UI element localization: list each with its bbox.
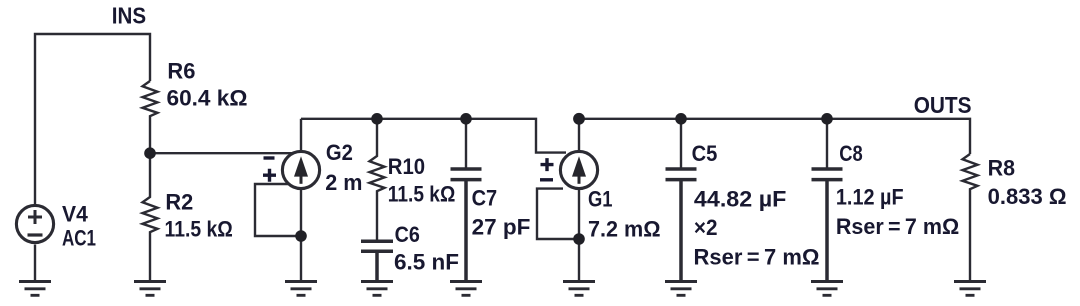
svg-text:Rser = 7 mΩ: Rser = 7 mΩ [836, 214, 959, 239]
wire bus2 G1 top to OUTS to R8 [579, 119, 970, 154]
junction node C7 top [460, 113, 472, 125]
ground R8 [954, 282, 986, 296]
svg-text:G2: G2 [326, 140, 353, 165]
capacitor C7 top lead [465, 119, 467, 168]
capacitor C8 top lead [826, 119, 828, 168]
V4 plus sign [28, 210, 42, 224]
G1 arrow [572, 156, 586, 176]
svg-text:R10: R10 [388, 154, 425, 179]
current source G1 circle [560, 151, 597, 188]
ground C5 [665, 282, 697, 296]
junction node C8 top [821, 113, 833, 125]
resistor R8 [963, 154, 978, 282]
junction node G1 feedback [573, 233, 585, 245]
G1 minus control glyph [540, 178, 553, 181]
junction node R6/R2/G2 [144, 147, 156, 159]
G2 plus control glyph [263, 169, 276, 182]
resistor R2 [143, 153, 158, 281]
svg-text:7.2 mΩ: 7.2 mΩ [588, 217, 661, 242]
svg-text:11.5 kΩ: 11.5 kΩ [165, 216, 233, 241]
svg-text:INS: INS [112, 3, 146, 29]
ground C7 [450, 282, 482, 296]
capacitor C5 top lead [680, 119, 682, 168]
G1 bottom lead to ground [578, 189, 580, 282]
svg-text:C7: C7 [472, 186, 498, 211]
G1 minus control stub and feedback loop [537, 189, 579, 239]
svg-text:R2: R2 [165, 189, 193, 214]
svg-text:6.5 nF: 6.5 nF [394, 249, 459, 274]
G2 bottom lead to ground [300, 189, 302, 282]
svg-text:OUTS: OUTS [914, 92, 972, 118]
svg-text:60.4 kΩ: 60.4 kΩ [167, 86, 248, 111]
ground C6 [361, 282, 393, 296]
ground C8 [811, 282, 843, 296]
current source G1 top lead [578, 119, 580, 151]
V4 bottom lead [34, 245, 36, 282]
ground V4 [19, 282, 51, 296]
svg-text:44.82 µF: 44.82 µF [694, 186, 787, 211]
G1 plus control glyph [541, 158, 554, 171]
junction node G2 feedback [295, 230, 307, 242]
svg-text:0.833 Ω: 0.833 Ω [988, 184, 1067, 209]
junction node G1 top [573, 113, 585, 125]
svg-text:2 m: 2 m [325, 170, 362, 195]
wire V4 top to INS corner to R6 top [35, 34, 150, 204]
svg-text:C5: C5 [692, 141, 718, 166]
svg-text:C6: C6 [395, 222, 420, 247]
svg-text:R8: R8 [988, 156, 1015, 181]
svg-text:V4: V4 [62, 202, 88, 227]
svg-text:1.12 µF: 1.12 µF [836, 185, 904, 210]
ground R2 [134, 282, 166, 296]
G2 minus control glyph [264, 156, 275, 159]
current source G2 top lead [300, 119, 302, 151]
svg-text:27 pF: 27 pF [472, 215, 531, 240]
wire junction to G2 minus control input [150, 152, 293, 154]
current source G2 circle [282, 151, 319, 188]
svg-text:R6: R6 [167, 59, 195, 84]
resistor R10 [370, 119, 385, 240]
svg-text:11.5 kΩ: 11.5 kΩ [388, 182, 456, 207]
svg-text:AC1: AC1 [62, 226, 96, 251]
ground G2 [285, 282, 317, 296]
V4 minus sign [28, 233, 43, 236]
ground G1 [563, 282, 595, 296]
svg-text:G1: G1 [588, 187, 613, 212]
capacitor C8 plates and bottom lead [812, 169, 843, 282]
svg-text:Rser = 7 mΩ: Rser = 7 mΩ [694, 245, 820, 270]
G2 plus control stub and feedback loop [255, 184, 301, 236]
svg-text:C8: C8 [839, 141, 863, 166]
junction node C5 top [675, 113, 687, 125]
capacitor C6 [361, 241, 393, 281]
resistor R6 [143, 81, 158, 153]
wire bus1 G2 top to R10/C7 to G1 plus control step [301, 119, 566, 153]
G2 arrow [294, 156, 308, 176]
capacitor C7 plates and bottom lead [451, 169, 482, 282]
voltage source V4 circle [16, 205, 53, 242]
junction node R10 top [371, 113, 383, 125]
capacitor C5 plates and bottom lead [666, 169, 697, 282]
svg-text:×2: ×2 [694, 215, 718, 240]
